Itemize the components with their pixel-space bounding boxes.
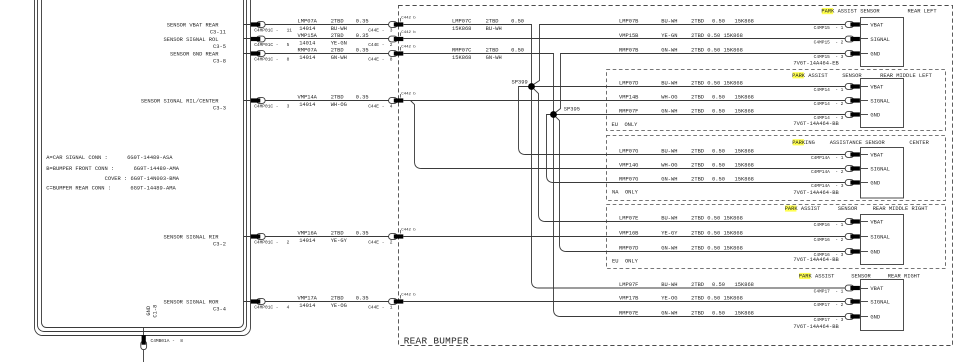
svg-text:RMP07B: RMP07B <box>619 47 639 53</box>
svg-text:0.50: 0.50 <box>511 19 524 25</box>
wire label RMP07G <box>619 176 754 182</box>
svg-text:C4MP17 - 1: C4MP17 - 1 <box>814 288 844 294</box>
svg-text:0.35: 0.35 <box>356 33 369 39</box>
svg-text:EU ONLY: EU ONLY <box>612 122 639 128</box>
sensor U2 pin SIGNAL <box>861 98 890 104</box>
svg-text:C4MP15 - 3: C4MP15 - 3 <box>814 54 844 60</box>
svg-text:B=BUMPER FRONT CONN : 6G9: B=BUMPER FRONT CONN : 6G9T-14489-AMA <box>46 166 179 172</box>
sensor U4 pin VBAT <box>861 219 885 225</box>
svg-text:7V6T-14A464-BB: 7V6T-14A464-BB <box>793 257 839 263</box>
connector C442 tag at bumper boundary (row VMP17A) <box>401 292 417 298</box>
wire label LMP07G <box>619 148 754 154</box>
svg-text:YE-GY: YE-GY <box>331 238 348 244</box>
connector C4MP15 pin 3 <box>814 51 860 60</box>
svg-text:2TBD: 2TBD <box>331 296 344 302</box>
wire VMP14A/VMP14B straight to block2 SIGNAL <box>403 100 845 102</box>
svg-text:2TBD: 2TBD <box>331 95 344 101</box>
svg-text:2TBD: 2TBD <box>691 148 704 154</box>
svg-text:C4MP01C - 3: C4MP01C - 3 <box>254 104 289 110</box>
svg-text:GN-WH: GN-WH <box>661 245 677 251</box>
svg-text:VBAT: VBAT <box>870 152 884 158</box>
svg-text:15K868: 15K868 <box>735 162 754 168</box>
sensor U2 pin VBAT <box>861 84 885 90</box>
connector C4MP17 pin 3 <box>814 314 860 323</box>
sensor U4 box <box>861 215 904 265</box>
svg-text:15K868: 15K868 <box>735 310 754 316</box>
wire label LMP07F <box>619 282 754 288</box>
svg-text:SENSOR VBAT REAR: SENSOR VBAT REAR <box>167 22 220 28</box>
svg-text:YE-GN: YE-GN <box>661 33 677 39</box>
inline connector C44E pin 1 <box>368 299 403 311</box>
svg-text:LMP07B: LMP07B <box>619 18 639 24</box>
connector C442 tag at bumper boundary (row LMP07A) <box>401 15 417 21</box>
svg-text:REAR LEFT: REAR LEFT <box>908 9 938 15</box>
svg-text:2TBD: 2TBD <box>691 176 704 182</box>
svg-text:WH-OG: WH-OG <box>661 94 677 100</box>
inline connector C4MB01A pin 8 (vertical) <box>141 335 183 349</box>
svg-text:PARK ASSIST: PARK ASSIST <box>799 274 835 280</box>
wire RMP07C continuation to splice SP395 <box>404 54 554 115</box>
wire label RMP07D <box>619 245 743 251</box>
connector C4MP14 pin 3 <box>814 112 860 121</box>
connector C4MP16 pin 2 <box>814 234 860 243</box>
wire VMP15A/VMP15B straight to block1 SIGNAL <box>403 38 845 40</box>
sensor U4 pin SIGNAL <box>861 234 890 240</box>
sensor U1 header <box>821 8 937 15</box>
connector C4MP14 pin 2 <box>814 98 860 107</box>
inline connector C4MP01C pin 3 <box>251 98 290 110</box>
svg-text:SENSOR: SENSOR <box>865 140 885 146</box>
svg-text:15K868: 15K868 <box>735 94 754 100</box>
svg-text:7V6T-14A464-BB: 7V6T-14A464-BB <box>793 190 839 196</box>
svg-text:C4MP14A - 1: C4MP14A - 1 <box>811 155 844 161</box>
svg-text:YE-OG: YE-OG <box>661 295 677 301</box>
wire RMP07D from SP395 to block4 GND <box>556 117 846 252</box>
wire label LMP07C (bumper side) <box>452 19 524 32</box>
svg-text:2TBD: 2TBD <box>331 19 344 25</box>
wire VMP17A from module C3 to C44E <box>244 296 390 309</box>
svg-text:C4MP14A - 3: C4MP14A - 3 <box>811 183 844 189</box>
svg-text:C3-2: C3-2 <box>213 242 226 248</box>
option dashed box EU ONLY <box>607 70 946 131</box>
svg-text:REAR MIDDLE RIGHT: REAR MIDDLE RIGHT <box>873 206 929 212</box>
inline connector C4MP01C pin 5 <box>251 36 290 48</box>
svg-text:GND: GND <box>870 180 880 186</box>
connector C4MP14A pin 2 <box>811 166 860 175</box>
svg-text:GND: GND <box>870 112 880 118</box>
svg-text:VBAT: VBAT <box>870 22 884 28</box>
svg-text:SIGNAL: SIGNAL <box>870 234 889 240</box>
svg-text:PARKING: PARKING <box>792 140 815 146</box>
svg-text:WH-OG: WH-OG <box>331 102 347 108</box>
sensor U3 header <box>792 139 929 146</box>
svg-text:SP395: SP395 <box>564 106 580 112</box>
svg-text:0.50: 0.50 <box>712 310 725 316</box>
svg-text:GND: GND <box>870 51 880 57</box>
option dashed box NA ONLY <box>607 136 946 201</box>
svg-text:C4MP14 - 3: C4MP14 - 3 <box>814 115 844 121</box>
wire GND lead from module C1-8 <box>143 328 145 362</box>
svg-text:15K868: 15K868 <box>735 176 754 182</box>
svg-text:2TBD 0.50 15K868: 2TBD 0.50 15K868 <box>691 80 743 86</box>
svg-text:LMP07A: LMP07A <box>298 19 318 25</box>
svg-text:BU-WH: BU-WH <box>661 18 677 24</box>
svg-text:2TBD: 2TBD <box>691 94 704 100</box>
connector C4MP15 pin 2 <box>814 36 860 45</box>
wire VMP16A from module C3 to C44E <box>244 231 390 244</box>
connector C4MP16 pin 1 <box>814 219 860 228</box>
module pin label C3-8 SENSOR GND REAR <box>170 51 226 64</box>
connector C4MP14A pin 1 <box>811 152 860 161</box>
wire RMP07A from module C3 to C44E <box>244 48 390 61</box>
svg-text:7V6T-14A464-EB: 7V6T-14A464-EB <box>793 60 839 66</box>
svg-text:RMP07D: RMP07D <box>619 245 638 251</box>
svg-text:C4MP16 - 2: C4MP16 - 2 <box>814 237 844 243</box>
svg-text:2TBD 0.50 15K868: 2TBD 0.50 15K868 <box>691 215 743 221</box>
svg-text:SENSOR SIGNAL ROL: SENSOR SIGNAL ROL <box>164 37 219 43</box>
svg-text:VMP14G: VMP14G <box>619 162 638 168</box>
wire VMP14A from module C3 to C44E <box>244 95 390 108</box>
svg-text:0.50: 0.50 <box>712 148 725 154</box>
svg-text:RMP07C: RMP07C <box>452 48 471 54</box>
svg-text:C=BUMPER REAR CONN : 6G9T: C=BUMPER REAR CONN : 6G9T-14489-AMA <box>46 185 176 191</box>
svg-text:C44E - 8: C44E - 8 <box>368 57 393 63</box>
svg-text:BU-WH: BU-WH <box>331 26 347 32</box>
svg-text:SENSOR SIGNAL RIL/CENTER: SENSOR SIGNAL RIL/CENTER <box>141 98 219 104</box>
svg-text:GN-WH: GN-WH <box>331 55 347 61</box>
wire label LMP07B <box>619 18 754 24</box>
svg-text:LMP07C: LMP07C <box>452 19 471 25</box>
connector C4MP16 pin 3 <box>814 249 860 258</box>
svg-text:SIGNAL: SIGNAL <box>870 98 889 104</box>
svg-text:0.35: 0.35 <box>356 48 369 54</box>
svg-text:2TBD 0.50 15K868: 2TBD 0.50 15K868 <box>691 245 743 251</box>
wire VMP17A/VMP17B straight to block5 SIGNAL <box>403 301 845 303</box>
svg-text:2TBD: 2TBD <box>486 19 499 25</box>
svg-text:0.50: 0.50 <box>712 18 725 24</box>
svg-text:C44E - 3: C44E - 3 <box>368 28 393 34</box>
svg-text:GN-WH: GN-WH <box>661 108 677 114</box>
connector C4MP17 pin 2 <box>814 299 860 308</box>
module C3 rear bumper harness connector outline (triple nested rounded rect) <box>35 0 251 336</box>
svg-text:LMP07F: LMP07F <box>619 282 638 288</box>
svg-text:7V6T-14A464-BB: 7V6T-14A464-BB <box>793 324 839 330</box>
svg-text:VBAT: VBAT <box>870 84 884 90</box>
svg-text:VMP15A: VMP15A <box>298 33 318 39</box>
svg-text:SENSOR: SENSOR <box>838 206 858 212</box>
inline connector C44E pin 2 <box>368 234 403 246</box>
wire label RMP07E <box>619 310 754 316</box>
svg-text:2TBD: 2TBD <box>691 310 704 316</box>
svg-text:BU-WH: BU-WH <box>661 215 677 221</box>
svg-text:0.50: 0.50 <box>712 176 725 182</box>
inline connector C4MP01C pin 2 <box>251 234 290 246</box>
inline connector C44E pin 2 <box>368 36 403 48</box>
svg-text:WH-OG: WH-OG <box>661 162 677 168</box>
svg-text:VMP16A: VMP16A <box>298 231 318 237</box>
svg-text:GN-WH: GN-WH <box>661 47 677 53</box>
sensor U1 box <box>861 18 904 67</box>
svg-text:2TBD 0.50 15K868: 2TBD 0.50 15K868 <box>691 295 743 301</box>
svg-text:15K868: 15K868 <box>735 18 754 24</box>
module pin label C3-2 SENSOR SIGNAL RIR <box>164 234 227 247</box>
inline connector C44E pin 8 <box>368 51 403 63</box>
svg-text:C3-4: C3-4 <box>213 307 226 313</box>
svg-text:2TBD: 2TBD <box>331 33 344 39</box>
svg-text:LMP07G: LMP07G <box>619 148 638 154</box>
splice SP399 <box>512 80 535 90</box>
svg-text:SIGNAL: SIGNAL <box>870 166 889 172</box>
svg-text:15K868: 15K868 <box>452 26 471 32</box>
svg-text:C442 b: C442 b <box>401 30 416 35</box>
svg-text:C44E - 2: C44E - 2 <box>368 42 393 48</box>
svg-text:NA ONLY: NA ONLY <box>612 190 639 196</box>
sensor U4 pin GND <box>861 249 881 255</box>
svg-text:0.50: 0.50 <box>511 48 524 54</box>
connector C4MP14 pin 1 <box>814 84 860 93</box>
svg-text:0.50: 0.50 <box>712 94 725 100</box>
svg-text:GN-WH: GN-WH <box>661 176 677 182</box>
svg-text:EU ONLY: EU ONLY <box>612 258 639 264</box>
svg-text:C44E - 4: C44E - 4 <box>368 104 393 110</box>
svg-text:15K868: 15K868 <box>735 108 754 114</box>
sensor U4 header <box>785 205 929 212</box>
svg-text:VBAT: VBAT <box>870 219 884 225</box>
svg-text:C442 b: C442 b <box>401 292 416 297</box>
wire label RMP07B <box>619 47 743 53</box>
svg-text:PARK ASSIST: PARK ASSIST <box>785 206 821 212</box>
wire LMP07C continuation to splice SP399 <box>404 25 532 87</box>
wire RMP07F from SP395 to block2 GND <box>554 114 846 116</box>
svg-text:C4MP01C - 4: C4MP01C - 4 <box>254 305 289 311</box>
svg-text:C442 b: C442 b <box>401 15 416 20</box>
wire label RMP07F <box>619 108 754 114</box>
svg-text:YE-OG: YE-OG <box>331 303 347 309</box>
svg-text:0.35: 0.35 <box>356 231 369 237</box>
svg-text:2TBD 0.50 15K868: 2TBD 0.50 15K868 <box>691 47 743 53</box>
svg-text:C3-8: C3-8 <box>213 59 226 65</box>
connector C442 tag at bumper boundary (row VMP16A) <box>401 227 417 233</box>
sensor U5 pin GND <box>861 314 881 320</box>
svg-text:GND: GND <box>870 314 880 320</box>
svg-text:C442 b: C442 b <box>401 227 416 232</box>
wire LMP07B block1 VBAT drop to SP399 <box>534 25 846 85</box>
module internal part number table <box>46 155 179 191</box>
svg-text:GN-WH: GN-WH <box>661 310 677 316</box>
svg-text:A=CAR SIGNAL CONN : 6G9T-: A=CAR SIGNAL CONN : 6G9T-14489-ASA <box>46 155 173 161</box>
wire LMP07D from SP399 to block2 VBAT <box>532 86 846 88</box>
svg-text:C4MP15 - 1: C4MP15 - 1 <box>814 25 844 31</box>
rear bumper boundary (dashed box) <box>399 6 953 346</box>
sensor U3 pin GND <box>861 180 881 186</box>
svg-text:RMP07F: RMP07F <box>619 108 638 114</box>
svg-text:SENSOR SIGNAL ROR: SENSOR SIGNAL ROR <box>164 299 220 305</box>
svg-text:14014: 14014 <box>299 40 315 46</box>
svg-text:C4MP17 - 3: C4MP17 - 3 <box>814 317 844 323</box>
svg-text:C4MP17 - 2: C4MP17 - 2 <box>814 302 844 308</box>
module pin label C3-4 SENSOR SIGNAL ROR <box>164 299 227 312</box>
sensor U3 pin SIGNAL <box>861 166 890 172</box>
wire VMP16A/VMP16B straight to block4 SIGNAL <box>403 236 845 238</box>
svg-text:RMP07A: RMP07A <box>298 48 318 54</box>
svg-text:2TBD 0.50 15K868: 2TBD 0.50 15K868 <box>691 33 743 39</box>
svg-text:REAR RIGHT: REAR RIGHT <box>888 274 921 280</box>
svg-text:SIGNAL: SIGNAL <box>870 299 889 305</box>
wire LMP07F from SP399 to block5 VBAT <box>532 87 846 289</box>
svg-text:0.50: 0.50 <box>712 282 725 288</box>
svg-text:C3-5: C3-5 <box>213 44 226 50</box>
wire label VMP14G <box>619 162 754 168</box>
svg-text:LMP07E: LMP07E <box>619 215 638 221</box>
connector C442 tag at bumper boundary (row VMP14A) <box>401 91 417 97</box>
sensor U5 pin VBAT <box>861 286 885 292</box>
svg-text:2TBD: 2TBD <box>691 18 704 24</box>
svg-text:PARK ASSIST SENSOR: PARK ASSIST SENSOR <box>821 9 880 15</box>
sensor U3 pin VBAT <box>861 152 885 158</box>
svg-text:C4MB01A - 8: C4MB01A - 8 <box>151 338 184 344</box>
wire LMP07A from module C3 to C44E <box>244 19 390 32</box>
svg-text:GND: GND <box>146 306 152 316</box>
svg-text:7V6T-14A464-BB: 7V6T-14A464-BB <box>793 121 839 127</box>
svg-text:0.35: 0.35 <box>356 95 369 101</box>
svg-text:SENSOR: SENSOR <box>851 274 871 280</box>
connector C442 tag at bumper boundary (row RMP07A) <box>401 44 417 50</box>
svg-text:C3-3: C3-3 <box>213 106 226 112</box>
svg-text:C4MP14 - 2: C4MP14 - 2 <box>814 101 844 107</box>
inline connector C4MP01C pin 11 <box>251 22 293 34</box>
svg-text:C4MP01C - 11: C4MP01C - 11 <box>254 28 292 34</box>
svg-text:C4MP14A - 2: C4MP14A - 2 <box>811 169 844 175</box>
wire label LMP07D <box>619 80 743 86</box>
wire label VMP17B <box>619 295 743 301</box>
svg-text:PARK ASSIST: PARK ASSIST <box>792 73 828 79</box>
svg-text:CENTER: CENTER <box>909 140 929 146</box>
wire VMP14G branch to block3 SIGNAL <box>411 101 846 169</box>
svg-text:C442 b: C442 b <box>401 44 416 49</box>
svg-text:BU-WH: BU-WH <box>486 26 502 32</box>
sensor U2 box <box>861 79 904 128</box>
svg-text:2TBD: 2TBD <box>691 162 704 168</box>
svg-text:0.35: 0.35 <box>356 19 369 25</box>
svg-text:REAR BUMPER: REAR BUMPER <box>404 336 469 347</box>
svg-text:COVER : 6G9T-14N003-BMA: COVER : 6G9T-14N003-BMA <box>105 176 180 182</box>
wire LMP07E from SP399 to block4 VBAT <box>534 89 846 222</box>
svg-text:GN-WH: GN-WH <box>486 55 502 61</box>
svg-text:GND: GND <box>870 249 880 255</box>
svg-text:VMP16B: VMP16B <box>619 230 639 236</box>
svg-text:C4MP01C - 2: C4MP01C - 2 <box>254 240 289 246</box>
svg-text:VMP17B: VMP17B <box>619 295 639 301</box>
svg-text:C4MP14 - 1: C4MP14 - 1 <box>814 87 844 93</box>
svg-text:2TBD 0.50 15K868: 2TBD 0.50 15K868 <box>691 230 743 236</box>
svg-text:YE-GN: YE-GN <box>331 40 347 46</box>
svg-text:C44E - 1: C44E - 1 <box>368 305 393 311</box>
inline connector C44E pin 4 <box>368 98 403 110</box>
wire VMP15A from module C3 to C44E <box>244 33 390 46</box>
module pin label C3-5 SENSOR SIGNAL ROL <box>164 37 227 50</box>
svg-text:REAR MIDDLE LEFT: REAR MIDDLE LEFT <box>880 73 933 79</box>
sensor U5 box <box>861 280 904 331</box>
wire label VMP15B <box>619 33 743 39</box>
svg-text:SENSOR: SENSOR <box>842 73 862 79</box>
svg-text:RMP07G: RMP07G <box>619 176 638 182</box>
module pin label C3-11 SENSOR VBAT REAR <box>167 22 226 35</box>
svg-text:14014: 14014 <box>299 303 315 309</box>
svg-text:SENSOR SIGNAL RIR: SENSOR SIGNAL RIR <box>164 234 220 240</box>
svg-text:VMP15B: VMP15B <box>619 33 639 39</box>
svg-text:2TBD: 2TBD <box>331 48 344 54</box>
splice SP395 <box>550 106 580 118</box>
svg-text:14014: 14014 <box>299 238 315 244</box>
svg-text:BU-WH: BU-WH <box>661 148 677 154</box>
sensor U5 pin SIGNAL <box>861 299 890 305</box>
sensor U3 box <box>861 148 904 199</box>
connector C442 tag at bumper boundary (row VMP15A) <box>401 30 417 36</box>
svg-text:SP399: SP399 <box>512 80 528 86</box>
wire RMP07E from SP395 to block5 GND <box>554 115 846 317</box>
svg-text:2TBD: 2TBD <box>331 231 344 237</box>
svg-text:C44E - 2: C44E - 2 <box>368 240 393 246</box>
svg-text:15K868: 15K868 <box>735 148 754 154</box>
svg-text:C442 b: C442 b <box>401 91 416 96</box>
sensor U2 header <box>792 72 933 79</box>
svg-text:14014: 14014 <box>299 55 315 61</box>
svg-text:C4MP01C - 8: C4MP01C - 8 <box>254 57 289 63</box>
svg-text:SIGNAL: SIGNAL <box>870 37 889 43</box>
inline connector C4MP01C pin 8 <box>251 51 290 63</box>
svg-text:VMP14A: VMP14A <box>298 95 318 101</box>
sensor U2 pin GND <box>861 112 881 118</box>
svg-text:VMP17A: VMP17A <box>298 296 318 302</box>
inline connector C44E pin 3 <box>368 22 403 34</box>
connector C4MP17 pin 1 <box>814 285 860 294</box>
svg-text:C4MP16 - 1: C4MP16 - 1 <box>814 222 844 228</box>
sensor U5 header <box>799 273 921 280</box>
svg-text:14014: 14014 <box>299 26 315 32</box>
svg-text:BU-WH: BU-WH <box>661 282 677 288</box>
wire label VMP16B <box>619 230 743 236</box>
module pin GND C1-8 (vertical label) <box>146 305 158 318</box>
svg-text:0.50: 0.50 <box>712 162 725 168</box>
svg-text:0.35: 0.35 <box>356 296 369 302</box>
svg-text:BU-WH: BU-WH <box>661 80 677 86</box>
svg-text:VMP14B: VMP14B <box>619 94 639 100</box>
svg-text:SENSOR GND REAR: SENSOR GND REAR <box>170 51 219 57</box>
svg-text:2TBD: 2TBD <box>691 282 704 288</box>
svg-text:2TBD: 2TBD <box>691 108 704 114</box>
svg-text:LMP07D: LMP07D <box>619 80 638 86</box>
option dashed box EU ONLY <box>607 205 946 269</box>
sensor U1 pin SIGNAL <box>861 37 890 43</box>
wire LMP07G from SP399 to block3 VBAT <box>519 87 846 155</box>
module pin label C3-3 SENSOR SIGNAL RIL/CENTER <box>141 98 226 111</box>
wire label RMP07C (bumper side) <box>452 48 524 61</box>
sensor U1 pin GND <box>861 51 881 57</box>
svg-text:C1-8: C1-8 <box>152 305 158 318</box>
svg-text:14014: 14014 <box>299 102 315 108</box>
svg-text:C3-11: C3-11 <box>210 30 226 36</box>
svg-text:C4MP15 - 2: C4MP15 - 2 <box>814 39 844 45</box>
connector C4MP14A pin 3 <box>811 180 860 189</box>
svg-text:15K868: 15K868 <box>452 55 471 61</box>
sensor U1 pin VBAT <box>861 22 885 28</box>
wire RMP07G from SP395 to block3 GND <box>547 115 846 183</box>
svg-text:2TBD: 2TBD <box>486 48 499 54</box>
wire label VMP14B <box>619 94 754 100</box>
svg-text:VBAT: VBAT <box>870 286 884 292</box>
connector C4MP15 pin 1 <box>814 22 860 31</box>
svg-text:RMP07E: RMP07E <box>619 310 638 316</box>
